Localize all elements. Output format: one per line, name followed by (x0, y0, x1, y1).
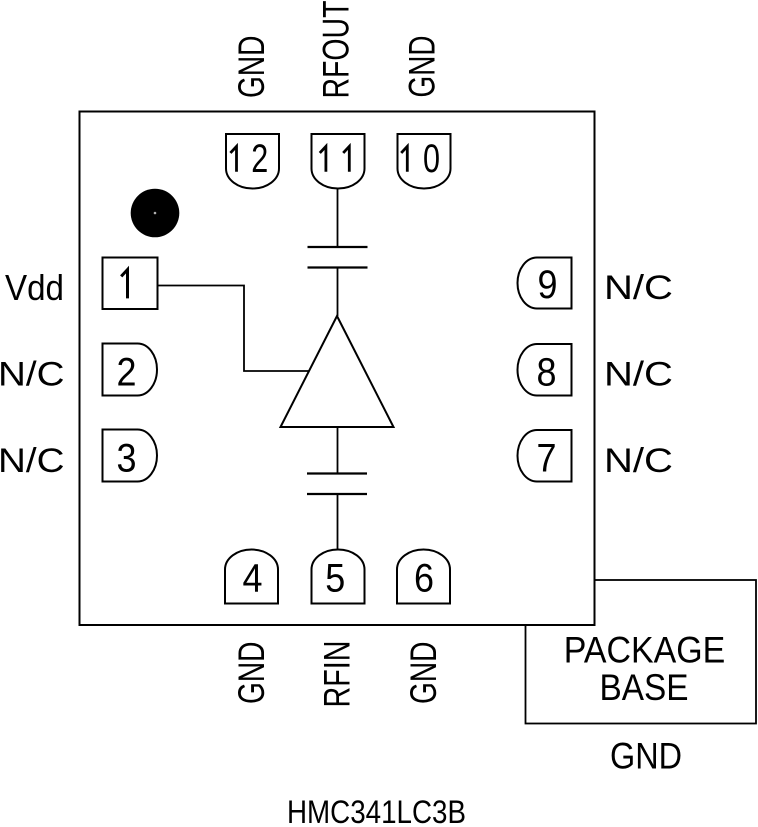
svg-text:2: 2 (251, 137, 268, 181)
svg-text:GND: GND (610, 735, 682, 776)
pin 3 (N/C) (103, 430, 158, 482)
pin 10 (GND) (398, 134, 451, 189)
svg-text:4: 4 (243, 556, 263, 600)
svg-text:RFIN: RFIN (317, 641, 358, 708)
svg-text:GND: GND (231, 36, 272, 99)
capacitor C1 (output DC block) (308, 247, 368, 268)
svg-text:HMC341LC3B: HMC341LC3B (287, 794, 466, 827)
pin 12 (GND) (226, 134, 279, 189)
svg-text:2: 2 (117, 351, 137, 395)
pin 6 (GND) (397, 550, 450, 604)
pin 7 (N/C) (518, 430, 572, 482)
svg-text:GND: GND (403, 642, 444, 705)
svg-text:N/C: N/C (604, 442, 673, 480)
wire amplifier base to capacitor C2 (337, 427, 339, 474)
svg-text:N/C: N/C (604, 269, 673, 307)
svg-text:5: 5 (325, 556, 345, 600)
pin 2 (N/C) (103, 344, 158, 396)
wire pin11 to capacitor C1 (337, 189, 339, 248)
svg-text:PACKAGE: PACKAGE (564, 630, 726, 671)
svg-text:9: 9 (538, 263, 558, 307)
pin 1 index marker dot (131, 189, 180, 238)
svg-text:GND: GND (231, 642, 272, 705)
pin 1 (Vdd) (103, 258, 158, 310)
svg-text:Vdd: Vdd (5, 267, 64, 308)
pin 11 (RFOUT) (312, 134, 365, 189)
svg-text:0: 0 (423, 137, 440, 181)
pin 5 (RFIN) (312, 550, 365, 604)
svg-text:7: 7 (537, 437, 557, 481)
wire C1 to amplifier apex (337, 268, 339, 317)
pin 9 (N/C) (518, 258, 572, 309)
svg-text:BASE: BASE (600, 667, 689, 708)
wire pin1 to amplifier input (158, 286, 310, 372)
pin 8 (N/C) (518, 344, 572, 396)
svg-text:N/C: N/C (604, 356, 673, 394)
svg-text:6: 6 (414, 556, 434, 600)
svg-text:N/C: N/C (0, 356, 65, 394)
wire C2 to pin 5 (337, 494, 339, 550)
package base (exposed paddle) box (526, 580, 757, 724)
capacitor C2 (input DC block) (307, 474, 367, 495)
svg-text:GND: GND (402, 36, 443, 98)
svg-text:3: 3 (117, 437, 137, 481)
svg-text:N/C: N/C (0, 442, 65, 480)
pin 4 (GND) (225, 550, 278, 604)
svg-text:RFOUT: RFOUT (316, 1, 357, 99)
svg-text:8: 8 (537, 351, 557, 395)
IC package outline U1 (80, 112, 595, 626)
amplifier A1 triangle (281, 316, 394, 427)
